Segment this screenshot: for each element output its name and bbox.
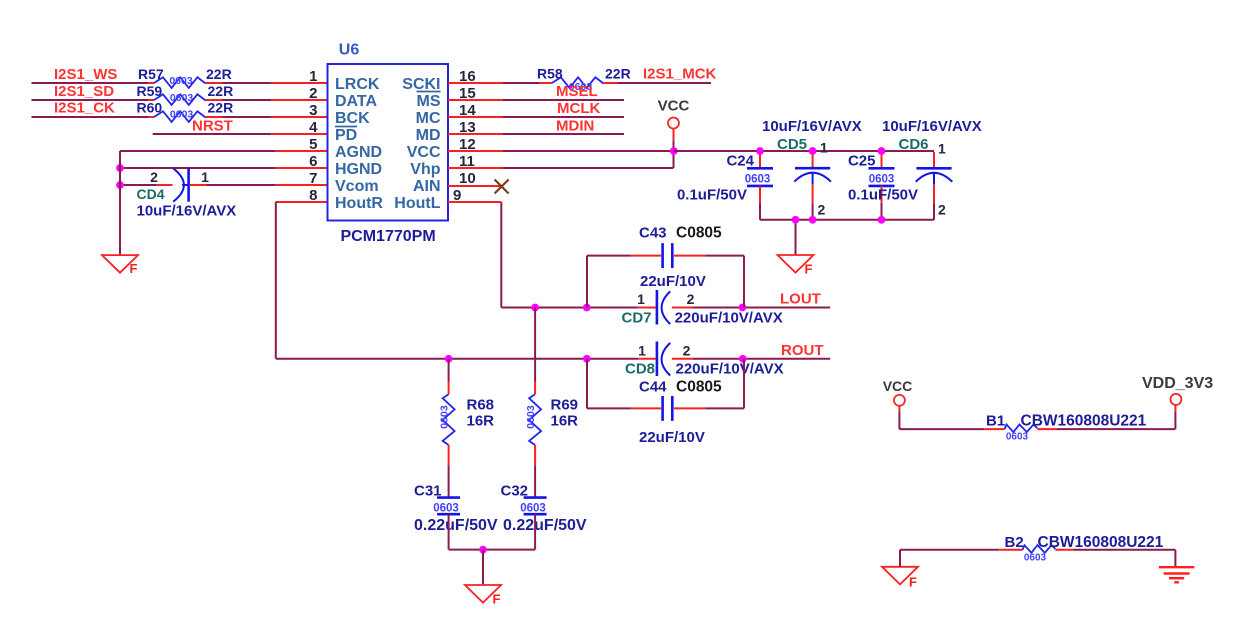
resistor R57 22R 0603 bbox=[138, 66, 232, 88]
resistor R59 22R 0603 bbox=[137, 83, 234, 105]
wire R68 to C31 bbox=[448, 445, 450, 497]
svg-text:PCM1770PM: PCM1770PM bbox=[341, 228, 436, 245]
pin number 3 bbox=[309, 102, 317, 119]
capacitor CD6 10uF/16V/AVX bbox=[882, 118, 982, 220]
svg-text:22uF/10V: 22uF/10V bbox=[640, 273, 706, 290]
pin name HoutR bbox=[335, 195, 383, 212]
wire R57 to U6 pin 1 bbox=[223, 82, 328, 84]
wire net I2S1_WS to R57 bbox=[32, 82, 155, 84]
net label MCLK bbox=[557, 100, 600, 117]
wire U6 pin 9 HoutL stub bbox=[448, 201, 501, 203]
svg-text:13: 13 bbox=[459, 119, 476, 136]
svg-text:R60: R60 bbox=[137, 100, 163, 116]
no-connect X on AIN bbox=[495, 180, 509, 194]
wire B2 to earth ground bbox=[1074, 550, 1176, 567]
ground F decoupling bbox=[778, 255, 814, 277]
svg-text:HoutL: HoutL bbox=[394, 195, 440, 212]
svg-text:R57: R57 bbox=[138, 66, 164, 82]
svg-text:16: 16 bbox=[459, 68, 476, 85]
net label NRST bbox=[192, 118, 233, 135]
junction CD5 top bbox=[809, 147, 817, 155]
wire net I2S1_SD to R59 bbox=[32, 99, 155, 101]
svg-text:0.1uF/50V: 0.1uF/50V bbox=[677, 187, 747, 204]
earth ground bbox=[1159, 567, 1194, 582]
wire NRST to U6 pin 4 bbox=[153, 133, 328, 135]
svg-text:I2S1_CK: I2S1_CK bbox=[54, 100, 115, 117]
svg-text:C0805: C0805 bbox=[676, 379, 722, 396]
resistor R69 16R bbox=[525, 394, 578, 445]
svg-text:2: 2 bbox=[150, 169, 158, 185]
wire Vhp up to VCC junction bbox=[673, 151, 675, 168]
pin name MC bbox=[416, 110, 441, 127]
svg-text:0.22uF/50V: 0.22uF/50V bbox=[503, 517, 587, 534]
svg-text:0603: 0603 bbox=[525, 405, 537, 429]
svg-text:12: 12 bbox=[459, 136, 476, 153]
svg-text:9: 9 bbox=[453, 187, 461, 204]
svg-text:8: 8 bbox=[309, 187, 317, 204]
wire CD7 to LOUT bbox=[692, 307, 830, 309]
junction pin7 row bbox=[116, 181, 124, 189]
svg-text:22R: 22R bbox=[208, 100, 234, 116]
svg-text:0.1uF/50V: 0.1uF/50V bbox=[848, 187, 918, 204]
svg-text:2: 2 bbox=[938, 202, 946, 218]
pin number 11 bbox=[459, 153, 475, 170]
svg-text:0603: 0603 bbox=[1006, 432, 1029, 443]
wire R60 to U6 pin 3 bbox=[223, 116, 328, 118]
pin name DATA bbox=[335, 93, 378, 110]
svg-text:0603: 0603 bbox=[520, 503, 546, 515]
wire U6 pin 13 MD / MDIN bbox=[448, 133, 624, 135]
pin name HoutL bbox=[394, 195, 440, 212]
pin name PD with overline bbox=[335, 127, 357, 145]
svg-text:10uF/16V/AVX: 10uF/16V/AVX bbox=[882, 118, 982, 135]
svg-text:10uF/16V/AVX: 10uF/16V/AVX bbox=[137, 203, 237, 220]
svg-text:5: 5 bbox=[309, 136, 317, 153]
svg-text:0603: 0603 bbox=[169, 75, 193, 87]
wire U6 pin 15 MS / MSEL bbox=[448, 99, 624, 101]
pin number 12 bbox=[459, 136, 476, 153]
svg-text:10uF/16V/AVX: 10uF/16V/AVX bbox=[762, 118, 862, 135]
power VCC top bbox=[658, 98, 690, 129]
svg-text:1: 1 bbox=[938, 141, 946, 157]
wire U6 pin 5 AGND to left vertical bbox=[120, 150, 328, 152]
svg-text:B1: B1 bbox=[986, 413, 1005, 430]
svg-text:C43: C43 bbox=[639, 225, 667, 242]
svg-text:BCK: BCK bbox=[335, 110, 370, 127]
pin number 7 bbox=[309, 170, 317, 187]
svg-text:R69: R69 bbox=[551, 397, 579, 414]
net label MSEL bbox=[556, 83, 598, 100]
svg-text:F: F bbox=[909, 575, 917, 590]
wire CD8 to ROUT bbox=[692, 358, 830, 360]
capacitor C32 0.22uF/50V 0603 bbox=[501, 483, 587, 550]
wire C31 C32 bottom rail bbox=[449, 549, 535, 551]
svg-text:0.22uF/50V: 0.22uF/50V bbox=[414, 517, 498, 534]
junction C25 top bbox=[878, 147, 886, 155]
capacitor CD8 220uF/10V/AVX polarized bbox=[625, 342, 784, 378]
svg-text:15: 15 bbox=[459, 85, 476, 102]
svg-text:R68: R68 bbox=[467, 397, 495, 414]
svg-text:7: 7 bbox=[309, 170, 317, 187]
ground F B2 bbox=[882, 567, 918, 590]
svg-text:3: 3 bbox=[309, 102, 317, 119]
svg-text:2: 2 bbox=[683, 343, 691, 359]
ground F center bbox=[465, 585, 501, 607]
svg-text:220uF/10V/AVX: 220uF/10V/AVX bbox=[675, 310, 783, 327]
svg-text:DATA: DATA bbox=[335, 93, 378, 110]
svg-text:CD8: CD8 bbox=[625, 361, 655, 378]
svg-text:220uF/10V/AVX: 220uF/10V/AVX bbox=[676, 361, 784, 378]
wire R68 top lead bbox=[448, 359, 450, 394]
wire decoupling bottom rail bbox=[760, 219, 934, 221]
pin number 9 bbox=[453, 187, 461, 204]
resistor R58 22R 0603 bbox=[537, 66, 631, 94]
svg-text:22R: 22R bbox=[208, 83, 234, 99]
svg-text:VCC: VCC bbox=[883, 378, 913, 394]
svg-text:14: 14 bbox=[459, 102, 476, 119]
svg-text:1: 1 bbox=[637, 291, 645, 307]
svg-text:VCC: VCC bbox=[658, 98, 690, 115]
svg-text:LOUT: LOUT bbox=[780, 291, 821, 308]
wire ROUT row from HoutR bbox=[276, 358, 656, 360]
svg-text:F: F bbox=[493, 592, 501, 607]
junction R69 tap bbox=[531, 304, 539, 312]
svg-text:MD: MD bbox=[416, 127, 441, 144]
wire U6 pin 14 MC / MCLK bbox=[448, 116, 624, 118]
power VDD_3V3 bbox=[1142, 375, 1213, 405]
junction C43 left leg bbox=[583, 304, 591, 312]
ferrite bead B1 CBW160808U221 0603 bbox=[986, 413, 1147, 443]
wire ground to B2 bbox=[900, 550, 1023, 567]
wire VCC to B1 bbox=[899, 406, 1004, 429]
svg-text:VCC: VCC bbox=[407, 144, 441, 161]
wire R59 to U6 pin 2 bbox=[223, 99, 328, 101]
svg-text:HoutR: HoutR bbox=[335, 195, 383, 212]
wire U6 pin 11 Vhp bbox=[448, 167, 674, 169]
wire LOUT row bbox=[535, 307, 655, 309]
svg-text:AIN: AIN bbox=[413, 178, 441, 195]
svg-text:0603: 0603 bbox=[869, 174, 895, 186]
pin name VCC bbox=[407, 144, 441, 161]
wire R69 to C32 bbox=[534, 445, 536, 497]
ferrite bead B2 CBW160808U221 0603 bbox=[1005, 534, 1164, 564]
wire HoutR down to ROUT row bbox=[275, 202, 277, 359]
wire U6 pin 16 SCKI to R58 bbox=[448, 82, 552, 84]
pin name AGND bbox=[335, 144, 382, 161]
pin name AIN bbox=[413, 178, 441, 195]
svg-text:C24: C24 bbox=[726, 153, 754, 170]
svg-text:I2S1_WS: I2S1_WS bbox=[54, 66, 117, 83]
capacitor CD4 10uF/16V/AVX polarized bbox=[137, 168, 237, 219]
net label ROUT bbox=[781, 342, 824, 359]
svg-text:MDIN: MDIN bbox=[556, 118, 594, 135]
pin name LRCK bbox=[335, 76, 380, 93]
svg-text:MSEL: MSEL bbox=[556, 83, 598, 100]
net label I2S1_SD bbox=[54, 83, 114, 100]
capacitor CD7 220uF/10V/AVX polarized bbox=[622, 290, 783, 327]
svg-text:11: 11 bbox=[459, 153, 475, 170]
pin name MD bbox=[416, 127, 441, 144]
svg-text:SCKI: SCKI bbox=[402, 76, 440, 93]
svg-text:CD6: CD6 bbox=[899, 136, 929, 153]
junction C43 right leg bbox=[739, 304, 747, 312]
wire left ground vertical bbox=[119, 151, 121, 255]
resistor R60 22R 0603 bbox=[137, 100, 234, 123]
svg-text:C44: C44 bbox=[639, 379, 667, 396]
pin name SCKI bbox=[402, 76, 440, 93]
pin number 4 bbox=[309, 119, 318, 136]
svg-text:U6: U6 bbox=[339, 42, 360, 59]
pin number 6 bbox=[309, 153, 317, 170]
svg-text:CBW160808U221: CBW160808U221 bbox=[1038, 534, 1164, 551]
junction C44 left leg bbox=[583, 355, 591, 363]
svg-text:I2S1_SD: I2S1_SD bbox=[54, 83, 114, 100]
svg-text:22R: 22R bbox=[206, 66, 232, 82]
pin number 5 bbox=[309, 136, 317, 153]
svg-text:0603: 0603 bbox=[170, 92, 194, 104]
wire VCC top rail bbox=[674, 150, 934, 152]
svg-text:CD4: CD4 bbox=[137, 186, 165, 202]
svg-text:0603: 0603 bbox=[745, 174, 771, 186]
wire R58 to I2S1_MCK bbox=[618, 82, 711, 84]
net label I2S1_MCK bbox=[643, 66, 717, 83]
junction C25 bottom bbox=[878, 216, 886, 224]
svg-text:10: 10 bbox=[459, 170, 476, 187]
wire CD4 to U6 pin 7 Vcom bbox=[206, 184, 327, 186]
capacitor C44 22uF/10V C0805 bypass loop bbox=[587, 359, 744, 446]
pin number 16 bbox=[459, 68, 476, 85]
svg-text:HGND: HGND bbox=[335, 161, 382, 178]
svg-text:CD5: CD5 bbox=[777, 136, 807, 153]
junction C44 right leg bbox=[739, 355, 747, 363]
wire U6 pin 10 AIN stub bbox=[448, 185, 502, 187]
svg-text:2: 2 bbox=[309, 85, 317, 102]
net label I2S1_CK bbox=[54, 100, 115, 117]
svg-text:R58: R58 bbox=[537, 66, 563, 82]
svg-text:16R: 16R bbox=[551, 413, 579, 430]
capacitor C43 22uF/10V C0805 bypass loop bbox=[587, 225, 744, 308]
wire VCC to rail bbox=[673, 129, 675, 151]
wire B1 to VDD_3V3 bbox=[1057, 406, 1175, 430]
svg-text:2: 2 bbox=[687, 291, 695, 307]
pin name Vhp bbox=[410, 161, 440, 178]
pin number 8 bbox=[309, 187, 317, 204]
svg-text:4: 4 bbox=[309, 119, 318, 136]
junction ground tap bbox=[792, 216, 800, 224]
svg-text:1: 1 bbox=[638, 343, 646, 359]
junction CD5 bottom bbox=[809, 216, 817, 224]
net label LOUT bbox=[780, 291, 821, 308]
pin name HGND bbox=[335, 161, 382, 178]
svg-text:16R: 16R bbox=[467, 413, 495, 430]
svg-text:PD: PD bbox=[335, 127, 357, 144]
svg-text:R59: R59 bbox=[137, 83, 163, 99]
svg-text:C32: C32 bbox=[501, 483, 529, 500]
svg-text:MS: MS bbox=[417, 93, 441, 110]
wire CD4 to junction bbox=[120, 184, 173, 186]
svg-text:B2: B2 bbox=[1005, 534, 1024, 551]
pin number 13 bbox=[459, 119, 476, 136]
pin number 2 bbox=[309, 85, 317, 102]
svg-text:C0805: C0805 bbox=[676, 225, 722, 242]
svg-text:C31: C31 bbox=[414, 483, 442, 500]
pin name BCK bbox=[335, 110, 370, 127]
net label I2S1_WS bbox=[54, 66, 117, 83]
svg-text:AGND: AGND bbox=[335, 144, 382, 161]
pin number 1 bbox=[309, 68, 317, 85]
svg-text:2: 2 bbox=[818, 202, 826, 218]
svg-text:0603: 0603 bbox=[170, 108, 194, 120]
junction C24 top bbox=[756, 147, 764, 155]
svg-text:22uF/10V: 22uF/10V bbox=[639, 429, 705, 446]
svg-text:Vcom: Vcom bbox=[335, 178, 379, 195]
svg-text:0603: 0603 bbox=[1024, 553, 1047, 564]
svg-text:NRST: NRST bbox=[192, 118, 233, 135]
wire U6 pin 8 HoutR stub bbox=[276, 201, 328, 203]
svg-text:F: F bbox=[130, 261, 138, 276]
wire R69 top lead bbox=[534, 308, 536, 395]
svg-text:1: 1 bbox=[201, 169, 209, 185]
junction bottom rail bbox=[479, 546, 487, 554]
pin number 14 bbox=[459, 102, 476, 119]
capacitor C31 0.22uF/50V 0603 bbox=[414, 483, 498, 550]
svg-text:LRCK: LRCK bbox=[335, 76, 380, 93]
net label MDIN bbox=[556, 118, 594, 135]
pin name Vcom bbox=[335, 178, 379, 195]
svg-text:22R: 22R bbox=[605, 66, 631, 82]
junction pin6 row bbox=[116, 164, 124, 172]
svg-text:0603: 0603 bbox=[433, 503, 459, 515]
svg-text:1: 1 bbox=[309, 68, 317, 85]
power VCC B1 bbox=[883, 378, 913, 406]
svg-text:ROUT: ROUT bbox=[781, 342, 824, 359]
wire U6 pin 6 HGND bbox=[120, 167, 328, 169]
svg-text:6: 6 bbox=[309, 153, 317, 170]
capacitor C24 0.1uF/50V 0603 bbox=[677, 152, 773, 220]
pin number 15 bbox=[459, 85, 476, 102]
wire net I2S1_CK to R60 bbox=[32, 116, 155, 118]
wire rail to ground bbox=[795, 220, 797, 255]
svg-text:C25: C25 bbox=[848, 153, 876, 170]
svg-text:I2S1_MCK: I2S1_MCK bbox=[643, 66, 717, 83]
junction VCC rail bbox=[670, 147, 678, 155]
svg-text:CD7: CD7 bbox=[622, 310, 652, 327]
svg-text:F: F bbox=[805, 262, 813, 277]
svg-text:1: 1 bbox=[820, 140, 828, 156]
svg-text:VDD_3V3: VDD_3V3 bbox=[1142, 375, 1213, 392]
wire U6 pin 12 VCC to rail bbox=[448, 150, 674, 152]
svg-text:CBW160808U221: CBW160808U221 bbox=[1021, 413, 1147, 430]
wire to ground center bbox=[482, 550, 484, 585]
svg-text:Vhp: Vhp bbox=[410, 161, 440, 178]
svg-text:0603: 0603 bbox=[438, 405, 450, 429]
svg-text:MC: MC bbox=[416, 110, 441, 127]
resistor R68 16R bbox=[438, 394, 494, 445]
IC U6 PCM1770PM bbox=[328, 42, 449, 246]
junction R68 tap bbox=[445, 355, 453, 363]
capacitor C25 0.1uF/50V 0603 bbox=[848, 152, 918, 220]
wire HoutL down to LOUT row bbox=[501, 202, 535, 308]
pin name MS with overline bbox=[417, 92, 441, 111]
pin number 10 bbox=[459, 170, 476, 187]
capacitor CD5 10uF/16V/AVX bbox=[762, 118, 862, 220]
ground F left bbox=[102, 255, 138, 276]
svg-text:MCLK: MCLK bbox=[557, 100, 600, 117]
